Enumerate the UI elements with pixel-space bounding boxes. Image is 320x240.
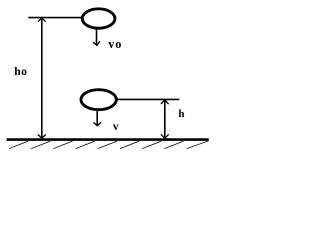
svg-text:ho: ho: [14, 65, 27, 78]
svg-text:vo: vo: [108, 37, 122, 51]
svg-text:h: h: [178, 108, 184, 120]
svg-text:v: v: [113, 120, 119, 133]
